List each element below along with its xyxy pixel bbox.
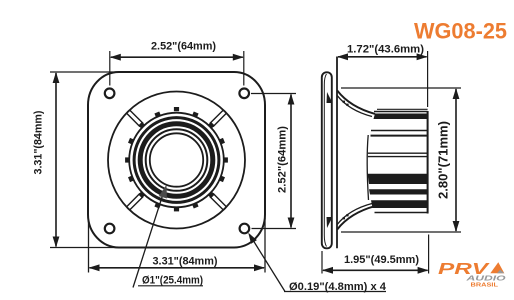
rear body top edge [374, 111, 428, 113]
bottom dimension extension lines [88, 221, 90, 273]
side view flange (edge-on) [322, 72, 332, 248]
top dimension extension lines [109, 51, 111, 86]
rib band A [374, 114, 428, 120]
rib line C1 [368, 152, 428, 154]
bell top outer curve [337, 91, 375, 114]
right dimension extension lines [251, 93, 296, 95]
bell bottom inner curve [337, 204, 372, 225]
rib line B2 [371, 135, 428, 137]
throat circle (1 inch) [150, 133, 203, 186]
flange inner edge detail [324, 74, 326, 247]
rib band D [368, 174, 428, 184]
side top dimension line 1.72in [338, 56, 427, 58]
right dimension line 2.52in [290, 95, 292, 228]
svg-text:2.52"(64mm): 2.52"(64mm) [277, 126, 289, 193]
side top dimension extension line right [427, 51, 429, 107]
side bottom dimension line 1.95in [323, 269, 428, 271]
svg-text:2.52"(64mm): 2.52"(64mm) [151, 41, 216, 53]
svg-text:Ø1"(25.4mm): Ø1"(25.4mm) [142, 275, 203, 287]
threaded collar tabs [125, 107, 228, 211]
rear body right edge [427, 111, 429, 214]
rib line C2 [368, 156, 428, 158]
svg-text:AUDIO: AUDIO [465, 274, 506, 283]
throat leader arrow [159, 185, 167, 199]
bell root knot top [327, 92, 333, 103]
top dimension line 2.52in [111, 56, 243, 58]
svg-text:1.72"(43.6mm): 1.72"(43.6mm) [347, 43, 424, 55]
four diagonal ribs between collar and mouth [127, 110, 226, 209]
svg-text:WG08-25: WG08-25 [414, 19, 507, 44]
front view mounting plate (rounded square) [88, 72, 265, 248]
flange back edge line [336, 57, 338, 249]
bell bottom outer curve [337, 206, 375, 229]
rear body bottom edge [375, 212, 428, 214]
rib line B1 [371, 130, 428, 132]
bell top inner curve [337, 96, 372, 117]
hole diameter leader line [250, 235, 286, 292]
side bottom dimension extension lines [321, 251, 323, 274]
outer black ring [134, 118, 219, 203]
waveguide mouth outer circle [108, 92, 245, 229]
throat diameter leader line [133, 193, 164, 288]
four mounting holes [105, 89, 249, 234]
hole leader arrow [248, 233, 257, 244]
svg-text:3.31"(84mm): 3.31"(84mm) [33, 110, 45, 174]
thick black ring [140, 124, 213, 197]
svg-text:BRASIL: BRASIL [471, 283, 499, 289]
rib band F [371, 200, 428, 208]
svg-text:1.95"(49.5mm): 1.95"(49.5mm) [344, 254, 419, 266]
bell root knot bottom [327, 217, 333, 228]
svg-text:2.80"(71mm): 2.80"(71mm) [437, 121, 451, 199]
svg-text:3.31"(84mm): 3.31"(84mm) [153, 256, 218, 268]
inner thin ring [146, 129, 208, 191]
side right dimension extension lines [341, 87, 461, 89]
bottom dimension line 3.31in [90, 267, 265, 269]
waist silhouette curve [367, 135, 368, 200]
left dimension extension lines [50, 71, 119, 73]
side right dimension line 2.80in [455, 89, 457, 231]
left dimension line 3.31in [55, 73, 57, 247]
rib band E [369, 189, 428, 194]
collar ring [129, 113, 224, 208]
PRV Audio logo [438, 261, 506, 289]
